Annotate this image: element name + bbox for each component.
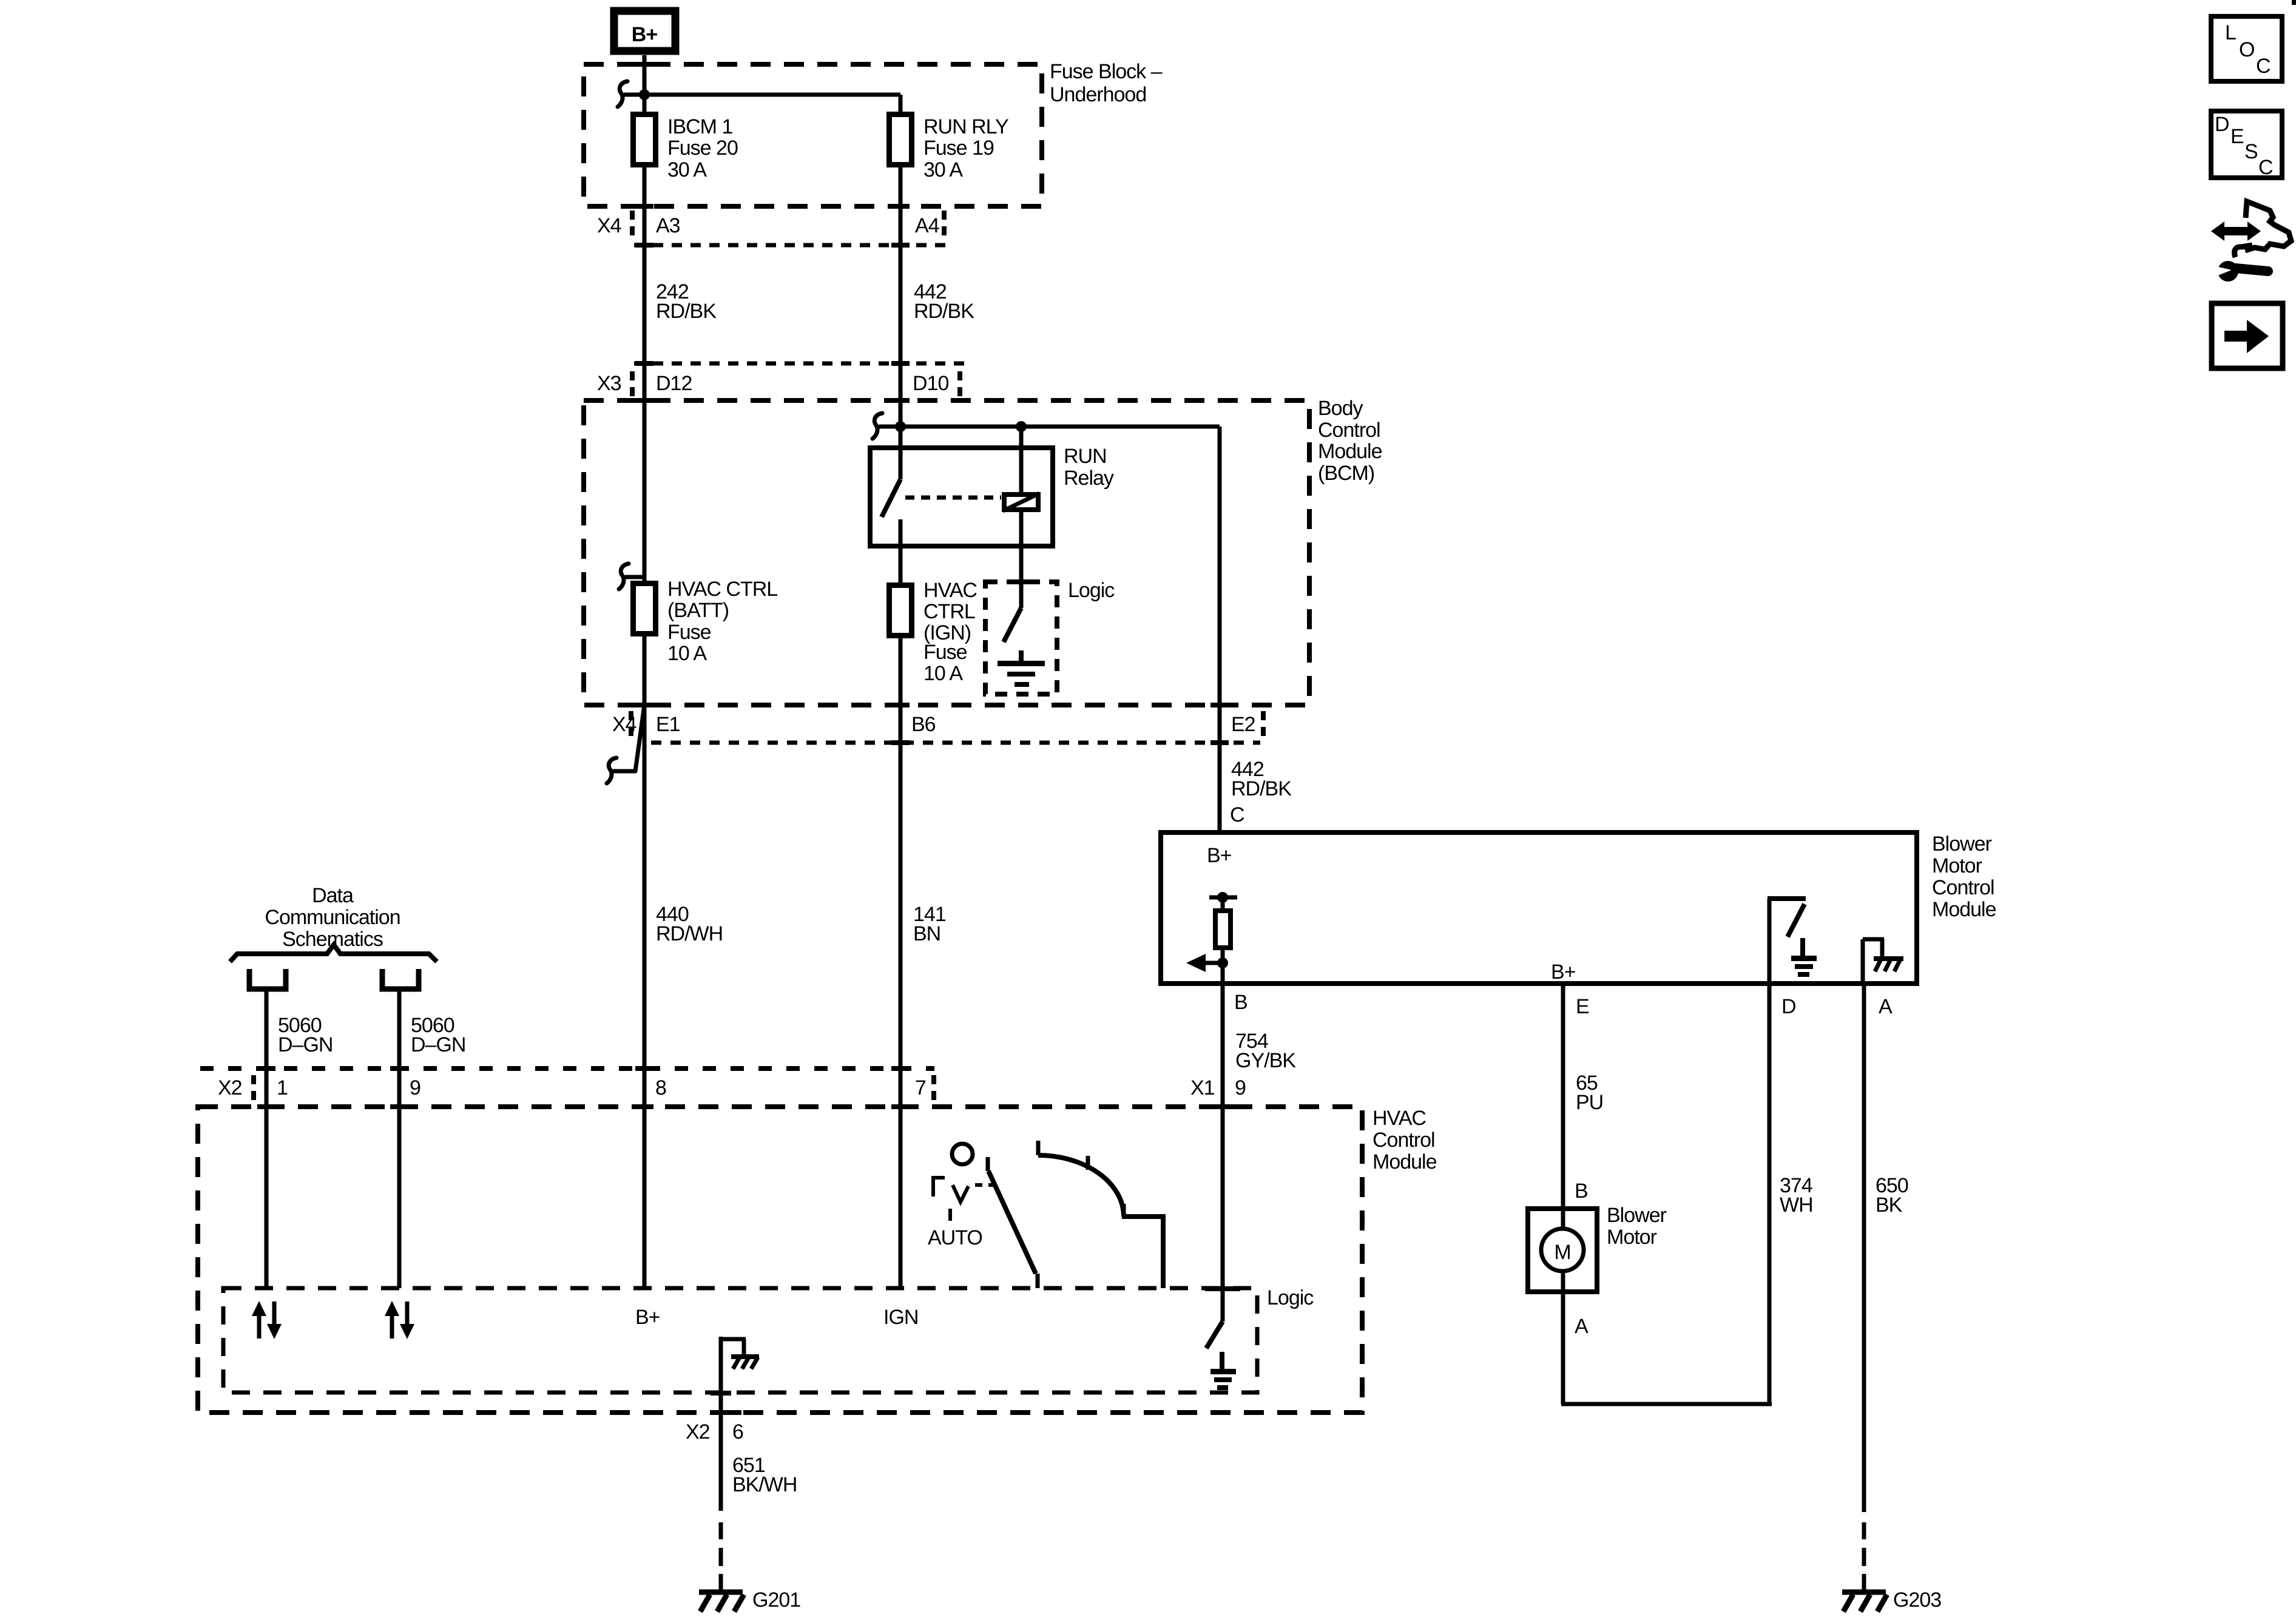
page corner mark (2292, 0, 2296, 5)
svg-text:HVAC: HVAC (923, 579, 977, 602)
svg-text:B6: B6 (911, 713, 936, 736)
svg-text:B: B (1234, 991, 1248, 1014)
svg-text:G203: G203 (1893, 1588, 1941, 1612)
svg-text:D10: D10 (913, 372, 948, 395)
svg-text:B+: B+ (635, 1306, 660, 1329)
svg-text:30 A: 30 A (667, 158, 707, 181)
svg-text:E2: E2 (1231, 713, 1255, 736)
wire: motor bottom loop (1561, 1402, 1772, 1406)
crossing tick W2 fuse block bottom (891, 204, 910, 209)
relay coil (1019, 427, 1024, 492)
crossing ticks BCM top (635, 398, 653, 403)
relay linkage dashed (905, 496, 1001, 500)
fuse HVAC CTRL (BATT) (633, 584, 656, 634)
crossing ticks at logic bottom and HVAC bottom (711, 1391, 731, 1396)
svg-text:Logic: Logic (1267, 1286, 1314, 1309)
svg-text:9: 9 (1235, 1076, 1246, 1099)
svg-text:(BCM): (BCM) (1318, 462, 1374, 485)
svg-text:IGN: IGN (883, 1306, 918, 1329)
svg-text:B: B (1575, 1180, 1588, 1203)
svg-text:HVAC: HVAC (1373, 1107, 1426, 1130)
Blower Motor box (1528, 1209, 1597, 1292)
Body Control Module box (584, 400, 1309, 705)
svg-text:G201: G201 (752, 1588, 800, 1612)
terminal for data wire 9 (382, 969, 419, 989)
svg-text:WH: WH (1780, 1193, 1813, 1217)
connector row X4 A3 A4 (597, 211, 950, 248)
dashed wire to G203 (1862, 1522, 1866, 1539)
svg-text:AUTO: AUTO (928, 1226, 982, 1249)
svg-text:Module: Module (1373, 1150, 1437, 1173)
signal ground in HVAC logic (1220, 1352, 1224, 1369)
svg-text:(BATT): (BATT) (667, 599, 729, 622)
data arrows pair 1 (252, 1301, 282, 1339)
svg-text:9: 9 (410, 1076, 420, 1099)
wire: pin E to blower motor (65 PU) (1561, 984, 1565, 1404)
svg-text:D: D (2215, 113, 2229, 136)
svg-text:E: E (2230, 125, 2244, 148)
svg-text:8: 8 (655, 1076, 666, 1099)
HVAC Control Module box (198, 1107, 1362, 1413)
node: junction at relay feed (895, 421, 906, 432)
svg-text:BK: BK (1876, 1193, 1903, 1217)
svg-text:10 A: 10 A (667, 642, 707, 665)
AUTO switch circle (952, 1144, 973, 1164)
E1 lead jog and hook (635, 705, 644, 771)
svg-text:Module: Module (1932, 898, 1996, 921)
wire: B+ feed down (242 circuit) (643, 55, 647, 1288)
svg-text:X2: X2 (686, 1420, 710, 1443)
RUN Relay box (870, 448, 1053, 546)
svg-text:10 A: 10 A (923, 662, 963, 685)
wire: pin B to HVAC logic (754) (1221, 984, 1225, 1322)
fuse IBCM 1 (633, 115, 656, 165)
chassis ground lead X2-6 inside HVAC (719, 1337, 723, 1511)
node: junction at relay coil feed (1016, 421, 1027, 432)
crossing tick at logic top (1010, 579, 1033, 584)
svg-text:B+: B+ (632, 23, 658, 46)
svg-text:E1: E1 (656, 713, 680, 736)
svg-text:BK/WH: BK/WH (732, 1473, 797, 1496)
wire: E2 output drop (442 to blower module) (1218, 427, 1222, 832)
svg-text:O: O (2239, 38, 2254, 61)
forward arrow box (2212, 303, 2283, 368)
svg-text:D–GN: D–GN (278, 1033, 333, 1056)
svg-text:A: A (1879, 995, 1893, 1018)
svg-text:C: C (1230, 803, 1244, 826)
wire: BCM internal bus at top (879, 425, 1220, 429)
crossing ticks BCM bottom (635, 703, 653, 707)
svg-text:CTRL: CTRL (923, 600, 975, 623)
signal ground at pin D switch (1800, 938, 1805, 956)
brace (230, 945, 437, 962)
svg-text:B+: B+ (1207, 844, 1232, 867)
svg-text:C: C (2258, 156, 2273, 179)
crossing ticks HVAC top (257, 1104, 275, 1109)
chassis ground at pin A (1861, 939, 1865, 984)
wire: pin A ground (650 BK) (1862, 984, 1866, 1512)
svg-text:Body: Body (1318, 397, 1363, 420)
ground G203 (1842, 1588, 1941, 1612)
svg-text:Motor: Motor (1932, 854, 1982, 877)
internal bus T-bar (1209, 896, 1237, 900)
BCM Logic box (985, 582, 1057, 694)
svg-text:Blower: Blower (1607, 1204, 1667, 1227)
svg-text:RD/BK: RD/BK (914, 300, 974, 323)
signal ground in BCM logic (1019, 650, 1024, 661)
svg-text:Fuse: Fuse (923, 641, 967, 664)
connector row X4 E1 B6 E2 (612, 711, 1263, 745)
AUTO actuator marks (933, 1178, 945, 1197)
svg-text:RUN: RUN (1064, 445, 1107, 468)
hook lead symbol at B+ bus (618, 81, 631, 107)
svg-text:D–GN: D–GN (411, 1033, 465, 1056)
svg-text:6: 6 (732, 1420, 743, 1443)
svg-text:Fuse Block –: Fuse Block – (1050, 60, 1163, 83)
svg-text:E: E (1576, 995, 1589, 1018)
svg-text:X3: X3 (597, 372, 621, 395)
connector row X3 D12 D10 (597, 361, 965, 398)
svg-text:Blower: Blower (1932, 832, 1992, 856)
hook lead symbol at BCM bus (873, 413, 886, 439)
svg-text:X4: X4 (597, 214, 621, 237)
svg-text:Control: Control (1932, 876, 1994, 899)
Fuse Block - Underhood box (584, 64, 1042, 206)
wire: data line 1 (5060) (265, 990, 269, 1288)
relay switch (899, 448, 903, 479)
wire: data line 9 (5060) (397, 990, 402, 1288)
logic switch blade (1004, 608, 1021, 642)
svg-text:PU: PU (1576, 1091, 1603, 1114)
ground G201 (699, 1588, 800, 1612)
svg-text:BN: BN (913, 922, 940, 945)
svg-text:Logic: Logic (1068, 579, 1115, 602)
svg-text:GY/BK: GY/BK (1235, 1049, 1296, 1072)
node: B+ bus junction (639, 89, 650, 100)
wire: RUN RLY fuse drop (442 circuit) (899, 95, 903, 479)
svg-text:Module: Module (1318, 440, 1382, 463)
wire: pin D to motor return (374 WH) (1768, 984, 1772, 1404)
module internal switch at pin D (1768, 899, 1772, 984)
svg-text:Underhood: Underhood (1050, 83, 1146, 106)
motor M circle (1541, 1229, 1584, 1271)
svg-text:RUN RLY: RUN RLY (923, 115, 1008, 138)
svg-text:Control: Control (1318, 419, 1380, 442)
svg-text:A: A (1575, 1315, 1589, 1338)
svg-text:1: 1 (277, 1076, 288, 1099)
wire: B+ bus to RUN RLY fuse (631, 93, 900, 97)
svg-text:Control: Control (1373, 1129, 1435, 1152)
svg-text:30 A: 30 A (923, 158, 963, 181)
data arrows pair 2 (385, 1301, 414, 1339)
B+ power feed box (614, 11, 675, 51)
svg-text:IBCM 1: IBCM 1 (667, 115, 732, 138)
AUTO switch blade (988, 1171, 1036, 1274)
AUTO switch contact (986, 1157, 990, 1171)
svg-text:D: D (1781, 995, 1796, 1018)
HVAC Logic box (223, 1288, 1257, 1393)
svg-text:A3: A3 (656, 214, 680, 237)
svg-text:Motor: Motor (1607, 1226, 1657, 1249)
crossing tick W1 fuse block top (635, 62, 653, 67)
svg-text:Fuse: Fuse (667, 621, 711, 644)
terminal for data wire 1 (249, 969, 286, 989)
svg-text:Relay: Relay (1064, 467, 1114, 490)
svg-text:RD/BK: RD/BK (1231, 777, 1292, 800)
crossing tick W1 fuse block bottom (635, 204, 653, 209)
wire: coil to logic ground (1019, 512, 1024, 608)
svg-text:L: L (2225, 21, 2236, 44)
blower speed dial (fan curve) (1036, 1141, 1041, 1155)
fuse RUN RLY (890, 115, 912, 165)
svg-text:A4: A4 (915, 214, 939, 237)
svg-text:D12: D12 (656, 372, 692, 395)
dashed wire to G201 (719, 1522, 723, 1539)
svg-text:Fuse 19: Fuse 19 (923, 137, 994, 160)
svg-text:X2: X2 (218, 1076, 242, 1099)
svg-text:B+: B+ (1551, 960, 1576, 984)
Blower Motor Control Module box (1161, 832, 1917, 984)
svg-text:Fuse 20: Fuse 20 (667, 137, 738, 160)
LOC box (2211, 16, 2282, 81)
svg-text:Data: Data (312, 884, 354, 907)
control arrow (1205, 961, 1223, 965)
svg-text:7: 7 (915, 1076, 926, 1099)
connector row X2 1 9 8 7 (200, 1066, 934, 1102)
svg-text:RD/BK: RD/BK (656, 300, 717, 323)
svg-text:RD/WH: RD/WH (656, 922, 723, 945)
svg-text:S: S (2244, 140, 2258, 163)
svg-text:HVAC CTRL: HVAC CTRL (667, 578, 777, 601)
svg-text:M: M (1554, 1241, 1570, 1264)
hook lead symbol above HVAC CTRL BATT fuse (619, 564, 644, 589)
logic switch at wire 754 (1205, 1286, 1240, 1291)
removal/installation icon (2211, 201, 2291, 282)
DESC box (2211, 111, 2282, 179)
svg-text:C: C (2256, 55, 2271, 78)
svg-text:Communication: Communication (265, 906, 400, 929)
svg-text:X1: X1 (1190, 1076, 1215, 1099)
resistor (speed control) (1215, 911, 1231, 948)
fuse HVAC CTRL (IGN) (890, 586, 912, 636)
